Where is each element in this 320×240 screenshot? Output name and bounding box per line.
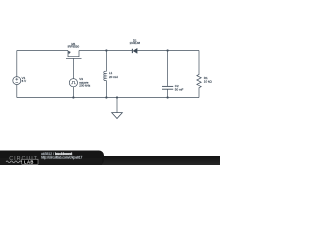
label C2 value (175, 84, 184, 92)
footer text lines (41, 152, 83, 159)
svg-text:200 kHz: 200 kHz (79, 84, 91, 88)
transistor M1 (PMOS IRF9530) (66, 51, 82, 79)
node: bottom rail / capacitor junction (167, 96, 169, 98)
node: top rail / inductor junction (105, 49, 107, 51)
inductor L1 (104, 51, 107, 98)
node: bottom rail / ground junction (116, 96, 118, 98)
square-wave source V3 (69, 79, 77, 87)
svg-text:10 kΩ: 10 kΩ (204, 79, 213, 83)
label V3 value (79, 77, 91, 88)
CircuitLab logo (6, 156, 38, 165)
svg-text:http://circuitlab.com/c/kpa817: http://circuitlab.com/c/kpa817 (41, 156, 83, 160)
wire bottom rail (17, 97, 199, 99)
resistor R1 (197, 51, 201, 98)
wire top rail left segment (17, 50, 68, 52)
svg-text:50 mF: 50 mF (175, 87, 184, 91)
diode D1 (132, 48, 137, 53)
svg-text:1N4148: 1N4148 (130, 41, 141, 45)
wire top rail middle segment (79, 50, 132, 52)
svg-text:6 V: 6 V (22, 79, 27, 83)
svg-text:20 mH: 20 mH (109, 75, 118, 79)
voltage source V1 (13, 77, 21, 85)
capacitor C2 (162, 51, 173, 98)
ground (112, 98, 123, 119)
wire left rail upper (V1 top lead) (16, 51, 18, 77)
svg-text:LAB: LAB (24, 159, 34, 164)
node: bottom rail / inductor junction (105, 96, 107, 98)
wire left rail lower (V1 bottom lead) (16, 85, 18, 98)
footer watermark bar (0, 151, 220, 166)
label L1 value (109, 71, 118, 79)
svg-text:IRF9530: IRF9530 (68, 45, 80, 49)
node: bottom rail / V3 junction (72, 96, 74, 98)
label R1 value (204, 76, 213, 84)
label D1 value (130, 39, 141, 46)
node: top rail / capacitor junction (167, 49, 169, 51)
label V1 value (22, 76, 27, 83)
wire top rail right segment (137, 50, 199, 52)
label M1 value (68, 42, 80, 48)
wire V3 bottom lead (72, 87, 74, 98)
